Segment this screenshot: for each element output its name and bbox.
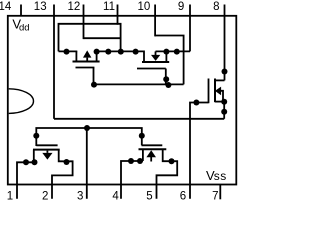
- svg-text:4: 4: [112, 190, 119, 202]
- svg-text:2: 2: [42, 190, 48, 202]
- svg-text:7: 7: [212, 190, 218, 202]
- svg-text:1: 1: [7, 190, 13, 202]
- svg-text:8: 8: [213, 1, 219, 13]
- svg-text:14: 14: [0, 1, 12, 13]
- svg-text:9: 9: [178, 1, 184, 13]
- svg-text:5: 5: [146, 190, 152, 202]
- svg-text:3: 3: [77, 190, 83, 202]
- svg-text:ss: ss: [214, 169, 227, 183]
- svg-text:6: 6: [180, 190, 186, 202]
- svg-text:dd: dd: [19, 23, 30, 34]
- svg-text:10: 10: [138, 1, 151, 13]
- svg-text:11: 11: [103, 1, 115, 13]
- svg-text:13: 13: [34, 1, 47, 13]
- svg-text:12: 12: [68, 1, 81, 13]
